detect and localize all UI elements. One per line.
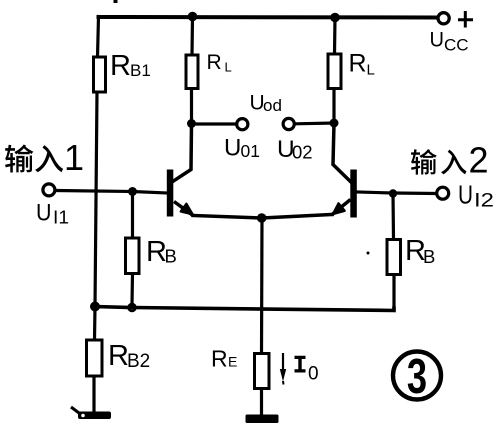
svg-text:B1: B1: [130, 61, 151, 80]
transistor Q1 base bar: [167, 170, 174, 217]
svg-text:0: 0: [308, 364, 319, 385]
svg-text:R: R: [349, 50, 367, 78]
wire right base lead: [357, 192, 435, 194]
svg-text:R: R: [110, 50, 131, 82]
wire RB2 branch: [94, 307, 95, 412]
resistor RL left: [186, 55, 198, 89]
svg-text:3: 3: [407, 350, 427, 405]
node right base junction: [389, 189, 397, 197]
stray speck: [367, 252, 370, 255]
label input-2 (Chinese): [411, 149, 466, 174]
wire U01 lead: [192, 122, 236, 125]
resistor RL right: [328, 54, 341, 89]
resistor RB2: [87, 340, 103, 376]
resistor RB1: [94, 57, 106, 92]
node top-left junction: [188, 12, 198, 22]
svg-text:L: L: [225, 60, 232, 75]
terminal UI2: [437, 187, 449, 199]
svg-text:B: B: [165, 246, 177, 267]
wire right collector: [333, 123, 352, 183]
svg-text:U: U: [36, 199, 52, 226]
wire left RL branch: [192, 17, 193, 124]
terminal UCC: [438, 13, 449, 24]
svg-text:1: 1: [64, 137, 84, 178]
svg-text:B2: B2: [127, 351, 150, 372]
node bottom-left junction: [90, 302, 100, 312]
svg-text:R: R: [207, 51, 222, 74]
svg-text:U: U: [458, 179, 473, 209]
wire emitter rail: [193, 215, 332, 219]
wire left collector: [174, 124, 192, 182]
svg-text:B: B: [423, 246, 435, 267]
node top-right junction: [330, 13, 340, 23]
label I0: [295, 356, 306, 373]
wire emitter tail to RE: [260, 218, 264, 354]
node left base junction: [128, 187, 137, 196]
svg-text:U: U: [224, 135, 241, 162]
svg-text:R: R: [211, 346, 228, 372]
wire right RB branch: [393, 194, 394, 310]
svg-text:E: E: [228, 354, 237, 370]
ground under RB2: [71, 407, 111, 419]
wire left bias branch (vertical, RB1): [95, 17, 99, 307]
svg-text:2: 2: [469, 140, 489, 181]
plus sign UCC: [458, 11, 473, 28]
resistor RB right: [387, 240, 401, 275]
resistor RB left: [126, 238, 140, 274]
transistor Q2 base bar: [350, 170, 357, 218]
svg-text:01: 01: [241, 141, 260, 161]
label input-1 (Chinese): [5, 145, 63, 173]
svg-text:I2: I2: [474, 190, 494, 211]
terminal U02: [283, 118, 294, 129]
figure number 3 (circled): [393, 350, 441, 405]
svg-text:L: L: [367, 62, 375, 79]
wire right RL branch: [334, 18, 335, 124]
svg-text:R: R: [108, 340, 129, 372]
svg-text:I1: I1: [53, 208, 69, 228]
wire U02 lead: [296, 121, 335, 125]
svg-text:od: od: [263, 96, 282, 115]
node RB-left bottom junction (ring): [129, 304, 136, 311]
wire left RB branch: [130, 192, 134, 305]
current I0 arrow: [280, 353, 286, 385]
transistor Q2 emitter with arrow: [332, 200, 351, 216]
resistor RE: [255, 354, 270, 389]
transistor Q1 emitter with arrow: [174, 202, 194, 216]
terminal UI1: [43, 184, 55, 196]
svg-text:U: U: [430, 28, 445, 52]
wire top rail: [99, 15, 438, 20]
terminal U01: [237, 119, 248, 130]
node left collector junction: [187, 119, 196, 128]
svg-text:02: 02: [292, 142, 313, 163]
ground under RE: [246, 415, 279, 424]
wire RE to ground: [260, 389, 263, 416]
node right collector junction: [330, 119, 339, 128]
node emitter junction: [257, 213, 267, 223]
stray tick top edge: [114, 0, 118, 3]
wire bottom bias rail: [95, 307, 394, 311]
svg-text:CC: CC: [444, 36, 469, 55]
wire left base lead: [56, 191, 167, 194]
